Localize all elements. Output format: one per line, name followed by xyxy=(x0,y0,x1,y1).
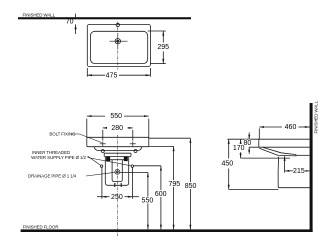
basin slab (front view) xyxy=(87,137,149,146)
dimension 80 (rim to deck underside) xyxy=(248,133,250,154)
svg-text:FINISHED FLOOR: FINISHED FLOOR xyxy=(23,225,59,230)
dimension 280 (bolt spacing) xyxy=(103,127,133,141)
svg-text:850: 850 xyxy=(185,183,197,190)
drain crosshair (plan view) xyxy=(110,33,128,50)
side view: shroud bottom xyxy=(278,187,309,189)
svg-text:600: 600 xyxy=(155,191,167,198)
side view: shroud front edge xyxy=(277,157,280,188)
top extension line (side dims) xyxy=(228,138,260,140)
inner shroud U (front view) xyxy=(112,160,122,182)
supply pipe circle left (front view) xyxy=(100,165,102,167)
dimension 475 (plan width) xyxy=(87,68,150,77)
svg-text:475: 475 xyxy=(106,72,118,79)
svg-text:FINISHED WALL: FINISHED WALL xyxy=(314,100,319,133)
leader water supply right xyxy=(88,158,132,166)
svg-text:DRAINAGE PIPE Ø 1 1/4: DRAINAGE PIPE Ø 1 1/4 xyxy=(28,174,77,179)
supply pipe circle right (front view) xyxy=(131,165,133,167)
centerline (plan view) xyxy=(117,22,119,70)
finished floor line xyxy=(21,229,313,232)
bracket block left (front view) xyxy=(106,157,110,161)
faucet hole (plan view) xyxy=(116,23,119,26)
svg-text:460: 460 xyxy=(285,124,297,131)
leader water supply left xyxy=(88,156,101,165)
svg-text:WATER SUPPLY PIPE Ø 1/2: WATER SUPPLY PIPE Ø 1/2 xyxy=(31,155,86,160)
svg-text:550: 550 xyxy=(110,113,122,120)
dimension 460 (side depth) xyxy=(259,126,309,139)
drain fitting circle (front view) xyxy=(115,169,120,174)
bracket block right (front view) xyxy=(124,157,128,161)
height dim 795 (slab underside) xyxy=(149,146,175,229)
inner bowl (plan view) xyxy=(90,31,147,63)
centerline (front view) xyxy=(117,135,119,236)
dimension 170 (rim to apron bottom) xyxy=(240,139,290,158)
svg-text:450: 450 xyxy=(221,161,233,168)
supply hole ring left (front view) xyxy=(101,150,104,153)
height dim 550 (drain height) xyxy=(120,172,149,229)
side view: overflow line to wall xyxy=(296,154,310,156)
svg-text:280: 280 xyxy=(111,125,123,132)
pedestal shroud (front view) xyxy=(105,157,128,185)
svg-text:215: 215 xyxy=(293,168,305,175)
bowl underside curve (front view) xyxy=(94,147,142,151)
bolt fixing cross left xyxy=(100,141,106,146)
dimension 70 (wall to basin rear) xyxy=(75,14,77,34)
basin outer rim (plan view) xyxy=(87,24,150,66)
trap flange (front view) xyxy=(104,153,131,156)
side view: deck underside line xyxy=(249,146,309,148)
supply hole ring right (front view) xyxy=(134,150,137,153)
side view: bowl slope lower xyxy=(259,148,296,156)
dimension 295 (plan depth) xyxy=(148,31,166,64)
svg-text:70: 70 xyxy=(66,18,74,25)
side view: rim top line xyxy=(259,138,310,140)
leader drainage xyxy=(86,172,115,176)
finished wall (side view, right) xyxy=(310,103,313,232)
height dim 600 (supply height) xyxy=(134,166,162,230)
svg-text:80: 80 xyxy=(244,140,252,147)
dimension 215 (wall to drain center) xyxy=(284,156,310,172)
svg-text:295: 295 xyxy=(157,44,169,51)
svg-text:FINISHED WALL: FINISHED WALL xyxy=(23,12,56,17)
finished wall (plan view, top) xyxy=(18,17,191,19)
side view: rim front edge xyxy=(258,139,260,147)
dimension 230 (pedestal base width) xyxy=(97,168,139,199)
side view: bowl slope upper xyxy=(263,147,296,154)
bolt fixing cross right xyxy=(130,141,136,146)
svg-text:550: 550 xyxy=(142,198,154,205)
svg-text:795: 795 xyxy=(168,181,180,188)
height dim 850 (rim height) xyxy=(149,138,192,229)
trap legs ticks xyxy=(115,183,121,187)
svg-text:250: 250 xyxy=(111,194,123,201)
dimension 550 (front view width) xyxy=(87,115,149,138)
leader bolt fixing xyxy=(71,134,102,143)
dimension 450 (rim to shroud bottom) xyxy=(228,139,279,189)
